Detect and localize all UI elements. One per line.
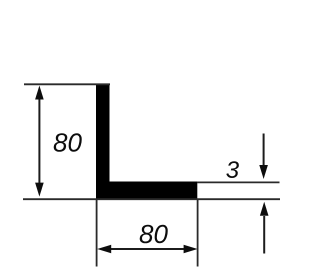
bottom extension line (long, left of bar through to right thickness line) [23,198,280,200]
L-profile body [96,84,197,200]
bottom dim arrow right [184,245,198,254]
left dimension line 80 [38,92,40,192]
svg-text:80: 80 [53,128,82,158]
left dim arrow up [35,86,44,100]
svg-text:80: 80 [139,219,168,249]
bottom-left witness line [96,199,98,267]
thickness arrow down [263,134,265,169]
top extension line [24,83,110,85]
thickness top line (right of bar) [197,181,280,183]
bottom dimension line 80 [104,248,191,250]
svg-text:3: 3 [226,157,240,184]
bottom dim arrow left [97,245,111,254]
thickness arrow up [263,216,265,254]
left dim arrow down [35,183,44,197]
bottom-right witness line [197,199,199,267]
